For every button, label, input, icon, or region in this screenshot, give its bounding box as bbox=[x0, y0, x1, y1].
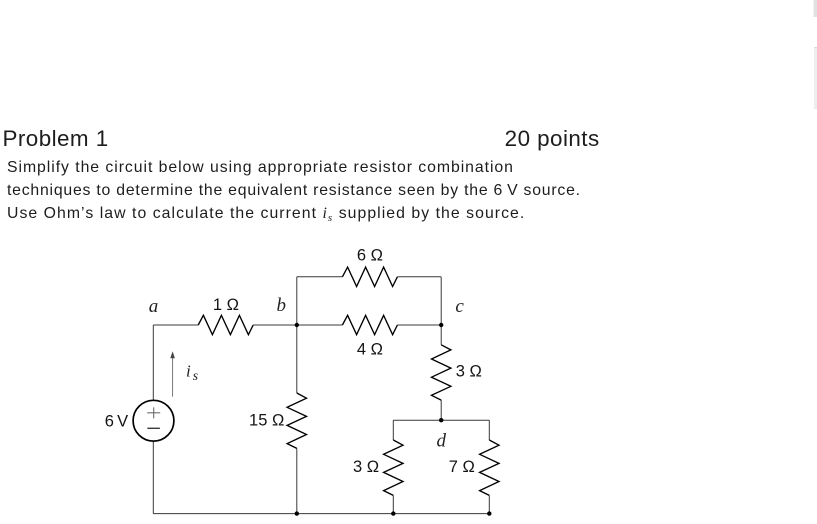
wire: node d rail bbox=[393, 419, 489, 421]
wire: top rail right of R6 bbox=[397, 276, 441, 278]
svg-text:15 Ω: 15 Ω bbox=[249, 412, 284, 430]
junction node b bbox=[295, 323, 299, 327]
body line 3 bbox=[7, 205, 525, 224]
wire: top rail left of R6 bbox=[297, 276, 343, 278]
svg-text:1 Ω: 1 Ω bbox=[213, 296, 239, 314]
junction bottom below 15 ohm bbox=[295, 511, 299, 515]
junction bottom right corner bbox=[487, 511, 491, 515]
junction bottom below 3 ohm bbox=[391, 511, 395, 515]
resistor R1 1 ohm bbox=[198, 315, 253, 334]
wire: bottom 3-ohm to bottom rail bbox=[392, 495, 394, 513]
wire: c up to top rail bbox=[440, 277, 442, 325]
wire: R4 to node c bbox=[397, 324, 441, 326]
resistor 3 ohm (bottom left) bbox=[384, 440, 403, 495]
resistor 15 ohm bbox=[287, 393, 306, 448]
wire: R3 to node d bbox=[440, 400, 442, 420]
junction node c bbox=[439, 323, 443, 327]
svg-text:3 Ω: 3 Ω bbox=[456, 363, 482, 381]
title: Problem 1 bbox=[3, 126, 109, 152]
body line 2 bbox=[7, 182, 581, 200]
body line 1 bbox=[7, 159, 514, 177]
svg-text:6 V: 6 V bbox=[105, 412, 129, 430]
wire: R1 to node b bbox=[253, 324, 297, 326]
minus sign of source bbox=[147, 427, 160, 429]
wire: source bottom to bottom rail bbox=[152, 441, 154, 513]
wire: b up to top rail bbox=[296, 277, 298, 325]
wire: b to R4 bbox=[297, 324, 342, 326]
wire: R7 to bottom rail bbox=[488, 495, 490, 513]
wire: d down-left branch bbox=[392, 420, 394, 440]
current arrow is bbox=[172, 357, 174, 397]
scrollbar track segment right bbox=[814, 47, 817, 109]
wire: b down to R15 bbox=[296, 325, 298, 393]
wire: d down-right branch bbox=[488, 420, 490, 440]
svg-text:a: a bbox=[149, 296, 159, 317]
resistor 3 ohm (c-d) bbox=[432, 345, 451, 400]
junction node d bbox=[439, 418, 443, 422]
resistor 4 ohm bbox=[342, 315, 397, 334]
svg-text:7 Ω: 7 Ω bbox=[449, 458, 475, 476]
wire: a to R1 bbox=[153, 324, 198, 326]
voltage source V1 6V circle bbox=[133, 400, 174, 441]
svg-text:6 Ω: 6 Ω bbox=[357, 247, 383, 265]
scrollbar thumb top-right bbox=[813, 0, 817, 17]
resistor 7 ohm bbox=[480, 440, 499, 495]
svg-text:c: c bbox=[455, 296, 464, 317]
svg-text:4 Ω: 4 Ω bbox=[357, 341, 383, 359]
svg-text:3 Ω: 3 Ω bbox=[353, 458, 379, 476]
resistor 6 ohm bbox=[342, 267, 397, 286]
svg-text:b: b bbox=[277, 295, 287, 316]
wire: c down to R3 bbox=[440, 325, 442, 345]
points label bbox=[505, 126, 600, 152]
svg-text:d: d bbox=[436, 430, 446, 451]
wire: node a down to source top bbox=[152, 325, 154, 400]
plus sign of source bbox=[147, 407, 160, 418]
wire: bottom rail bbox=[153, 513, 489, 515]
wire: R15 to bottom rail bbox=[296, 448, 298, 513]
svg-text:is: is bbox=[186, 362, 198, 384]
